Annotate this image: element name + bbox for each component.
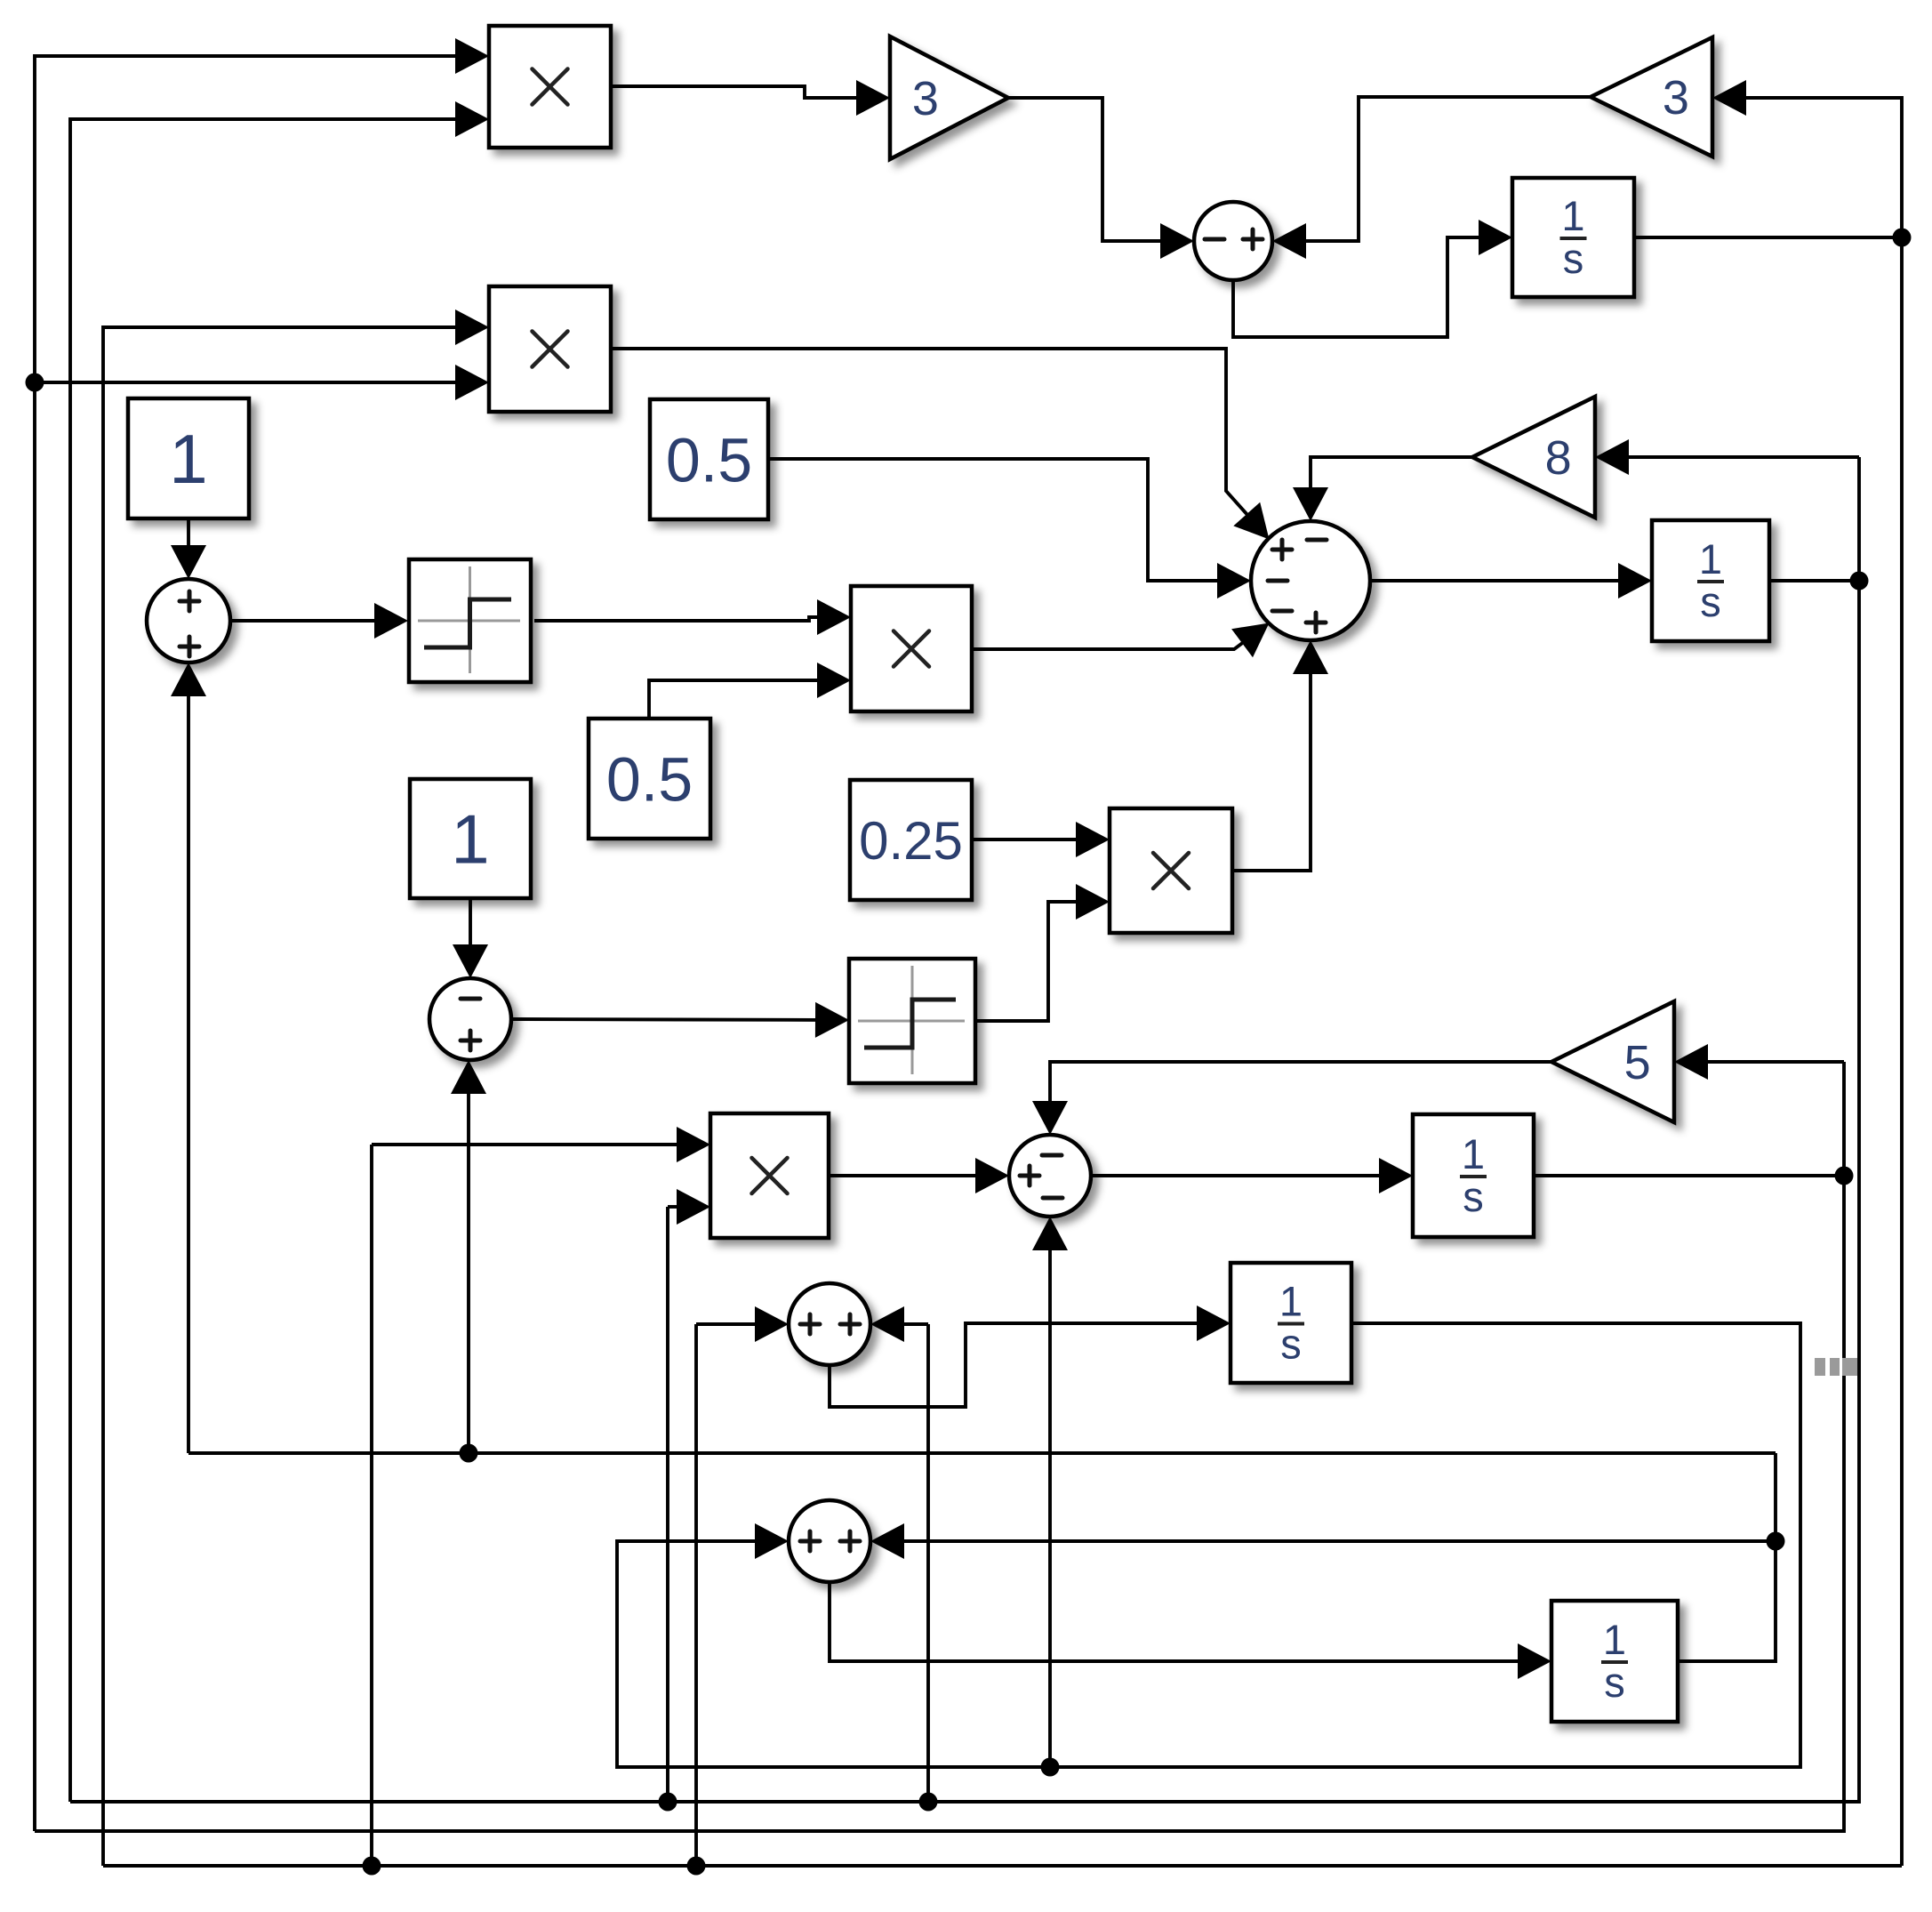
svg-text:3: 3 <box>912 72 939 125</box>
svg-text:s: s <box>1280 1321 1302 1368</box>
svg-text:1: 1 <box>1279 1278 1303 1325</box>
svg-text:1: 1 <box>1699 535 1722 582</box>
svg-text:5: 5 <box>1624 1036 1651 1089</box>
svg-text:s: s <box>1700 578 1721 625</box>
svg-text:1: 1 <box>1603 1616 1626 1663</box>
svg-text:s: s <box>1563 235 1584 282</box>
svg-text:1: 1 <box>451 800 489 879</box>
svg-text:0.5: 0.5 <box>666 425 752 494</box>
svg-text:s: s <box>1604 1659 1625 1706</box>
svg-text:0.25: 0.25 <box>859 811 963 871</box>
svg-text:1: 1 <box>169 420 207 498</box>
svg-text:8: 8 <box>1545 431 1572 485</box>
svg-text:1: 1 <box>1561 192 1584 239</box>
svg-text:0.5: 0.5 <box>606 744 693 814</box>
svg-text:s: s <box>1463 1173 1484 1220</box>
svg-text:1: 1 <box>1462 1130 1485 1177</box>
svg-text:3: 3 <box>1663 71 1689 125</box>
